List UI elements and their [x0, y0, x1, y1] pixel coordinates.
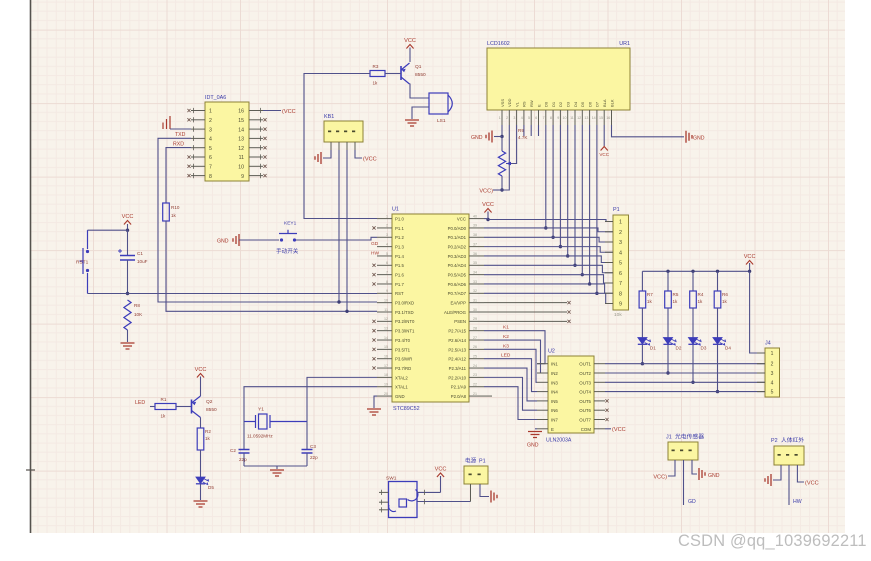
svg-text:LS1: LS1 — [437, 118, 446, 124]
svg-text:GD: GD — [688, 499, 696, 505]
buzzer LS1 — [429, 93, 448, 114]
svg-text:D4: D4 — [725, 346, 731, 351]
wire LCD D7 to P0.7 — [596, 125, 598, 293]
LCD pin 4 RS — [523, 110, 525, 125]
U1 pin 23 P2.2/A10 — [469, 376, 484, 378]
RP1 pin 4 — [605, 251, 613, 253]
svg-text:OUT1: OUT1 — [579, 362, 591, 367]
wire D4 to OUT4 row — [717, 344, 719, 391]
svg-text:P0.3/AD3: P0.3/AD3 — [448, 254, 467, 259]
svg-text:5: 5 — [386, 252, 388, 256]
U1 pin 24 P2.3/A11 — [469, 367, 484, 369]
svg-text:29: 29 — [473, 317, 477, 321]
svg-text:17: 17 — [384, 364, 388, 368]
junction — [500, 188, 503, 191]
svg-text:15: 15 — [384, 345, 388, 349]
svg-text:33: 33 — [473, 280, 477, 284]
junction — [666, 371, 669, 374]
RP1 pin 7 — [605, 282, 613, 284]
svg-text:9: 9 — [241, 174, 244, 180]
sheet border tick — [26, 469, 35, 471]
svg-text:TXD: TXD — [175, 132, 186, 138]
svg-text:P1.5: P1.5 — [395, 263, 404, 268]
LCD pin 11 D4 — [574, 110, 576, 125]
svg-text:P0.1/AD1: P0.1/AD1 — [448, 235, 467, 240]
svg-text:5: 5 — [619, 261, 622, 267]
svg-text:8550: 8550 — [206, 407, 217, 413]
svg-text:K3: K3 — [503, 343, 509, 349]
svg-text:6: 6 — [386, 261, 388, 265]
U1 pin 39 P0.0/AD0 — [469, 227, 484, 229]
svg-text:K2: K2 — [503, 334, 509, 340]
svg-text:P3.7/RD: P3.7/RD — [395, 366, 411, 371]
U2 pin IN1 — [537, 363, 548, 365]
wire KB1 pin2 down — [338, 150, 340, 302]
svg-text:D7: D7 — [595, 101, 600, 107]
svg-text:P1.0: P1.0 — [395, 217, 404, 222]
svg-text:1k: 1k — [673, 299, 679, 304]
KB1 pin 1 — [330, 142, 332, 150]
svg-text:VCC: VCC — [195, 367, 207, 373]
J4 pin 1 — [757, 352, 765, 354]
U1 pin 11 P3.1/TXD — [377, 311, 392, 313]
svg-text:4: 4 — [771, 380, 774, 386]
wire buzzer to ground — [412, 107, 429, 119]
svg-text:7: 7 — [209, 165, 212, 171]
svg-text:OUT2: OUT2 — [579, 371, 591, 376]
wire LCD D3 to P0.3 — [567, 125, 569, 256]
svg-text:3: 3 — [386, 233, 388, 237]
pushbutton RST1 — [87, 230, 89, 249]
MCU U1 STC89C52 — [392, 214, 469, 402]
svg-text:10: 10 — [384, 298, 388, 302]
U1 pin 29 PSEN — [469, 320, 484, 322]
svg-text:P3.5/T1: P3.5/T1 — [395, 347, 411, 352]
svg-text:IN5: IN5 — [551, 399, 558, 404]
svg-text:P1.3: P1.3 — [395, 245, 404, 250]
svg-text:23: 23 — [473, 373, 477, 377]
U3 pin 16 — [249, 110, 263, 112]
svg-text:OUT3: OUT3 — [579, 380, 591, 385]
ground (U1) — [367, 409, 381, 415]
J4 pin 5 — [757, 391, 765, 393]
connector J1 光电传感器 — [668, 442, 698, 460]
U1 pin 2 P1.1 — [377, 227, 392, 229]
wire P0.6 to RP1 pin 8 — [484, 284, 613, 293]
svg-text:22p: 22p — [239, 457, 247, 462]
capacitor C3 22p — [306, 422, 308, 450]
svg-text:IN4: IN4 — [551, 390, 558, 395]
svg-text:35: 35 — [473, 261, 477, 265]
P2 pin3 to VCC — [797, 465, 804, 482]
svg-text:6: 6 — [535, 116, 537, 120]
svg-text:2: 2 — [209, 118, 212, 124]
wire key to U1 P1.2 — [296, 237, 377, 240]
junction — [691, 381, 694, 384]
svg-text:13: 13 — [238, 137, 244, 143]
svg-text:PSEN: PSEN — [454, 319, 466, 324]
wire VCC rail — [642, 270, 749, 272]
svg-text:R10: R10 — [171, 205, 180, 210]
svg-text:6: 6 — [619, 271, 622, 277]
svg-text:RST: RST — [395, 291, 404, 296]
svg-text:P1.2: P1.2 — [395, 235, 404, 240]
LED D4 — [713, 338, 722, 345]
wire LCD D1 to P0.1 — [552, 125, 554, 237]
svg-text:P2.4/A12: P2.4/A12 — [448, 357, 466, 362]
svg-text:3: 3 — [209, 127, 212, 133]
transistor Q2 8550 — [191, 400, 193, 414]
junction — [716, 270, 719, 273]
svg-text:OUT6: OUT6 — [579, 408, 591, 413]
U2 pin OUT5 — [594, 400, 605, 402]
svg-text:2: 2 — [386, 224, 388, 228]
U3 pin 2 — [191, 119, 205, 121]
svg-text:15: 15 — [599, 116, 603, 120]
svg-text:C2: C2 — [230, 448, 236, 453]
U2 pin IN3 — [537, 381, 548, 383]
svg-text:Q1: Q1 — [415, 64, 422, 70]
U3 pin 4 — [191, 137, 205, 139]
LCD pin 8 D1 — [552, 110, 554, 125]
svg-text:R4: R4 — [698, 292, 704, 297]
svg-text:D3: D3 — [566, 101, 571, 107]
svg-text:STC89C52: STC89C52 — [393, 406, 420, 412]
U2 pin E — [537, 428, 548, 430]
wire P2.6 to ULN IN2 — [484, 340, 541, 373]
P3 pin1 wire — [470, 484, 472, 502]
svg-text:22p: 22p — [310, 455, 318, 460]
wire R10 to U1 P3.1 — [166, 221, 377, 311]
P2 pin1 to ground — [773, 465, 781, 480]
wire P0.5 to RP1 pin 7 — [484, 275, 613, 283]
wire OUT3 to J4 pin4 — [605, 381, 765, 383]
U3 pin 9 — [249, 175, 263, 177]
svg-text:10k: 10k — [614, 312, 622, 318]
RP1 pin 8 — [605, 292, 613, 294]
resistor R3 1k — [370, 71, 385, 77]
wire D2 to OUT2 row — [667, 344, 669, 373]
svg-text:P1: P1 — [613, 207, 620, 213]
U3 pin 5 — [191, 147, 205, 149]
svg-text:6: 6 — [209, 155, 212, 161]
wire LCD D4 to P0.4 — [574, 125, 576, 265]
svg-text:14: 14 — [592, 116, 596, 120]
no-connect OUT6 — [605, 409, 608, 412]
svg-text:1k: 1k — [373, 81, 379, 86]
svg-text:4: 4 — [521, 116, 523, 120]
svg-text:P3.0/RXD: P3.0/RXD — [395, 301, 414, 306]
svg-text:R2: R2 — [205, 429, 211, 434]
wire P2.3 to ULN IN5 — [484, 368, 537, 401]
U1 pin 31 EA/VPP — [469, 302, 484, 304]
resistor R7 1k — [641, 271, 643, 291]
U3 pin 14 — [249, 128, 263, 130]
U2 pin COM — [594, 428, 605, 430]
power port on pin 3 — [163, 116, 170, 129]
svg-text:27: 27 — [473, 336, 477, 340]
svg-text:E: E — [536, 104, 541, 107]
svg-text:13: 13 — [584, 116, 588, 120]
svg-text:D0: D0 — [544, 101, 549, 107]
svg-text:8: 8 — [386, 280, 388, 284]
svg-text:21: 21 — [473, 392, 477, 396]
svg-text:5: 5 — [528, 116, 530, 120]
U3 pin 8 — [191, 175, 205, 177]
svg-text:OUT5: OUT5 — [579, 399, 591, 404]
U1 pin 19 XTAL1 — [377, 386, 392, 388]
svg-text:1: 1 — [619, 220, 622, 226]
U1 pin 36 P0.3/AD3 — [469, 255, 484, 257]
svg-text:BLA: BLA — [602, 99, 607, 107]
svg-text:D1: D1 — [551, 101, 556, 107]
svg-text:P2: P2 — [771, 438, 778, 444]
svg-text:IN7: IN7 — [551, 418, 558, 423]
J4 pin 2 — [757, 363, 765, 365]
svg-text:K1: K1 — [503, 325, 509, 331]
svg-text:1: 1 — [499, 116, 501, 120]
svg-text:R7: R7 — [647, 292, 653, 297]
svg-text:16: 16 — [606, 116, 610, 120]
LCD pin 14 D7 — [596, 110, 598, 125]
U3 pin 13 — [249, 137, 263, 139]
U2 pin OUT6 — [594, 409, 605, 411]
svg-text:1k: 1k — [722, 299, 728, 304]
wire COM to VCC — [605, 428, 611, 430]
U1 pin 7 P1.6 — [377, 274, 392, 276]
U1 pin 14 P3.4/T0 — [377, 339, 392, 341]
U1 pin 38 P0.1/AD1 — [469, 236, 484, 238]
ground (U2) — [528, 432, 542, 438]
J1 pin1 to VCC — [668, 460, 675, 476]
RP1 pin 1 — [605, 221, 613, 223]
U1 pin 16 P3.6/WR — [377, 358, 392, 360]
wire P2.5 to ULN IN3 — [484, 349, 537, 382]
svg-text:(VCC: (VCC — [363, 156, 377, 162]
no-connect EA/VPP — [484, 302, 567, 304]
wire crystal ground rail — [244, 465, 307, 467]
wire P2.1 to ULN IN7 — [484, 387, 537, 420]
U1 pin 13 P3.3/INT1 — [377, 330, 392, 332]
svg-text:SW1: SW1 — [386, 476, 397, 482]
U1 pin 34 P0.5/AD5 — [469, 274, 484, 276]
svg-text:Q2: Q2 — [206, 399, 213, 405]
U1 pin 9 RST — [377, 292, 392, 294]
no-connect P2.0 — [484, 395, 492, 397]
svg-text:9: 9 — [557, 116, 559, 120]
U2 pin IN2 — [537, 372, 548, 374]
wire RST to U1 — [88, 293, 378, 295]
connector KB1 (4-pin header) — [324, 121, 363, 142]
resistor R6 1k — [717, 271, 719, 291]
svg-text:2: 2 — [619, 230, 622, 236]
svg-text:13: 13 — [384, 326, 388, 330]
U1 pin 33 P0.6/AD6 — [469, 283, 484, 285]
svg-text:5: 5 — [771, 390, 774, 396]
U1 pin 22 P2.1/A9 — [469, 386, 484, 388]
no-connect OUT7 — [605, 418, 608, 421]
svg-text:4: 4 — [619, 250, 622, 256]
capacitor C1 10uF — [127, 230, 129, 255]
LCD pin 5 RW — [530, 110, 532, 125]
svg-text:GND: GND — [527, 443, 539, 449]
junction — [666, 270, 669, 273]
svg-text:11.0592MHz: 11.0592MHz — [247, 434, 273, 439]
svg-text:30: 30 — [473, 308, 477, 312]
svg-text:U1: U1 — [392, 207, 399, 213]
junction — [126, 229, 129, 232]
ground (D5) — [194, 501, 208, 507]
LCD pin 3 VL — [516, 110, 518, 125]
wire P0.3 to RP1 pin 5 — [484, 256, 613, 263]
J1 pin2 net GD — [683, 460, 685, 505]
KB1 pin 2 — [338, 142, 340, 150]
ground (KB1) — [315, 152, 321, 164]
wire LCD D2 to P0.2 — [559, 125, 561, 247]
svg-text:VCC: VCC — [744, 254, 756, 260]
svg-text:P3.6/WR: P3.6/WR — [395, 357, 412, 362]
LCD pin 2 VDD — [508, 110, 510, 125]
wire OUT1 to J4 pin2 — [605, 363, 765, 365]
U2 pin IN7 — [537, 419, 548, 421]
svg-text:GND: GND — [217, 239, 229, 245]
svg-text:12: 12 — [384, 317, 388, 321]
U1 pin 4 P1.3 — [377, 246, 392, 248]
svg-text:D6: D6 — [587, 101, 592, 107]
svg-text:VCC: VCC — [599, 152, 609, 157]
svg-text:11: 11 — [570, 116, 574, 120]
KB1 pin 3 — [346, 142, 348, 150]
ground (J1) — [699, 468, 705, 480]
svg-text:VDD: VDD — [507, 98, 512, 107]
wire LED to R1 — [150, 406, 155, 408]
LCD pin 15 BLA — [603, 110, 605, 125]
LCD pin 13 D6 — [589, 110, 591, 125]
wire P0.7 to RP1 pin 9 — [484, 293, 613, 303]
svg-text:25: 25 — [473, 355, 477, 359]
svg-text:VCC: VCC — [457, 217, 466, 222]
svg-text:1: 1 — [386, 214, 388, 218]
svg-text:22: 22 — [473, 383, 477, 387]
svg-text:VCC: VCC — [122, 214, 134, 220]
U3 pin 1 — [191, 110, 205, 112]
wire XTAL1 — [244, 387, 377, 414]
svg-text:(VCC: (VCC — [805, 481, 819, 487]
svg-text:D2: D2 — [558, 101, 563, 107]
U1 pin 32 P0.7/AD7 — [469, 292, 484, 294]
svg-text:R8: R8 — [134, 303, 140, 308]
ground (buzzer) — [405, 120, 419, 126]
wire KB1 pin4 to VCC — [355, 150, 362, 158]
wire LCD D6 to P0.6 — [589, 125, 591, 284]
svg-text:P0.4/AD4: P0.4/AD4 — [448, 263, 467, 268]
U2 pin OUT1 — [594, 363, 605, 365]
LCD RS/RW/E stubs — [523, 125, 525, 136]
svg-text:R1: R1 — [161, 397, 167, 402]
U1 pin 12 P3.2/INT0 — [377, 320, 392, 322]
svg-text:1k: 1k — [205, 436, 211, 441]
U2 pin IN6 — [537, 409, 548, 411]
svg-text:HW: HW — [371, 250, 379, 256]
wire KB1 pin3 down — [346, 150, 348, 311]
svg-text:P2.1/A9: P2.1/A9 — [451, 385, 467, 390]
svg-text:U2: U2 — [548, 349, 555, 355]
resistor R10 1k — [163, 203, 170, 221]
U3 pin 12 — [249, 147, 263, 149]
svg-text:RST1: RST1 — [76, 260, 89, 266]
U2 pin IN5 — [537, 400, 548, 402]
junction — [500, 135, 503, 138]
SW1 pin — [379, 491, 389, 493]
svg-text:UR1: UR1 — [619, 41, 630, 47]
svg-text:P2.7/A15: P2.7/A15 — [448, 329, 466, 334]
no-connect OUT5 — [605, 399, 608, 402]
svg-text:24: 24 — [473, 364, 477, 368]
P2 pin2 net HW — [788, 465, 790, 505]
wire SW1 to VCC — [417, 491, 441, 493]
svg-text:38: 38 — [473, 233, 477, 237]
svg-text:2: 2 — [506, 116, 508, 120]
svg-text:P2.2/A10: P2.2/A10 — [448, 375, 466, 380]
U3 pin 7 — [191, 165, 205, 167]
U1 pin 28 P2.7/A15 — [469, 330, 484, 332]
wire Q2 collector — [200, 418, 202, 429]
svg-text:XTAL1: XTAL1 — [395, 385, 408, 390]
resistor R4 1k — [692, 271, 694, 291]
svg-text:VCC: VCC — [404, 38, 416, 44]
svg-text:D5: D5 — [208, 485, 214, 490]
U1 pin 6 P1.5 — [377, 264, 392, 266]
capacitor C2 22p — [243, 422, 245, 450]
svg-text:(VCC: (VCC — [612, 427, 626, 433]
wire R3 to Q1 base — [385, 73, 401, 75]
svg-text:R5: R5 — [673, 292, 679, 297]
SW1 pin — [379, 509, 389, 511]
svg-text:P3.2/INT0: P3.2/INT0 — [395, 319, 415, 324]
LED D5 — [196, 477, 205, 484]
J4 pin 4 — [757, 381, 765, 383]
ground (LCD VSS) — [486, 131, 492, 143]
svg-text:IN6: IN6 — [551, 408, 558, 413]
svg-text:OUT4: OUT4 — [579, 390, 591, 395]
svg-text:2: 2 — [771, 362, 774, 368]
svg-text:1k: 1k — [161, 414, 167, 419]
wire D1 to OUT1 row — [641, 344, 643, 363]
wire VDD down to VCC node — [502, 125, 509, 190]
svg-text:ALE/PROG: ALE/PROG — [444, 310, 467, 315]
LCD pin 1 VSS — [501, 110, 503, 125]
wire D3 to OUT3 row — [692, 344, 694, 382]
svg-text:R3: R3 — [373, 64, 379, 69]
svg-text:手动开关: 手动开关 — [276, 247, 299, 255]
svg-text:1k: 1k — [171, 213, 177, 218]
wire VCC rail to RP1 pin1 — [488, 220, 613, 222]
wire OUT4 to J4 pin5 — [605, 391, 765, 393]
svg-text:14: 14 — [384, 336, 388, 340]
wire P2.2 to ULN IN6 — [484, 377, 537, 410]
connector J4 — [765, 348, 780, 397]
wire LCD VSS down — [501, 125, 503, 137]
U2 pin OUT3 — [594, 381, 605, 383]
U3 pin 10 — [249, 165, 263, 167]
svg-text:VCC: VCC — [482, 202, 494, 208]
U1 pin 15 P3.5/T1 — [377, 348, 392, 350]
U1 pin 35 P0.4/AD4 — [469, 264, 484, 266]
svg-text:20: 20 — [384, 392, 388, 396]
svg-text:P3.3/INT1: P3.3/INT1 — [395, 329, 415, 334]
svg-text:P2.0/A8: P2.0/A8 — [451, 394, 467, 399]
svg-text:P1.1: P1.1 — [395, 226, 404, 231]
